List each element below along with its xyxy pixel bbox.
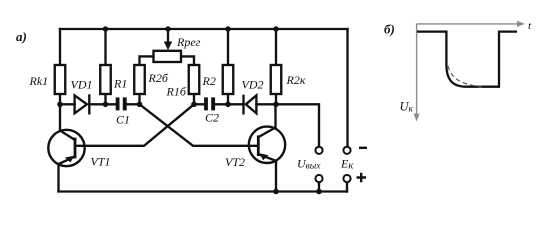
svg-text:а): а) [16,29,27,44]
svg-text:VD1: VD1 [71,78,93,92]
svg-text:б): б) [384,22,395,37]
svg-text:R1б: R1б [166,85,187,99]
svg-text:VT2: VT2 [225,155,245,169]
svg-text:R2к: R2к [286,73,306,87]
svg-text:C1: C1 [116,113,130,127]
svg-text:Rрег: Rрег [176,35,201,49]
svg-text:R1: R1 [113,77,127,91]
svg-text:VT1: VT1 [91,155,111,169]
svg-text:Rk1: Rk1 [29,74,49,88]
svg-text:C2: C2 [205,111,219,125]
svg-text:VD2: VD2 [242,78,264,92]
svg-text:R2: R2 [202,74,216,88]
svg-text:R2б: R2б [148,71,169,85]
